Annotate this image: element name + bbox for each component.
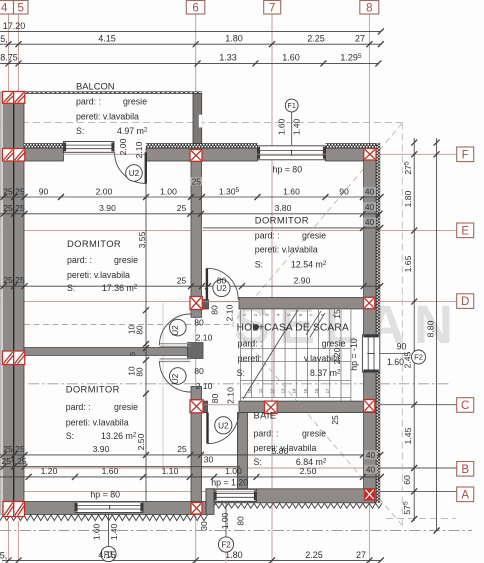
wall axis D jamb (202, 300, 209, 309)
door U2 dormitor2 swing arc (160, 361, 191, 392)
svg-text:40: 40 (365, 202, 375, 212)
staircase break line (306, 311, 321, 335)
svg-text:1.60: 1.60 (387, 357, 404, 367)
svg-text:27: 27 (355, 34, 365, 44)
svg-text:pard: :: pard: : (66, 402, 91, 412)
door U2 dormitor1 leaf (160, 343, 191, 345)
svg-text:S:: S: (66, 431, 74, 441)
grid axis A pink left part (0, 490, 378, 492)
column pair west axis F (3, 149, 25, 162)
svg-text:25,25: 25,25 (3, 203, 25, 213)
svg-text:DORMITOR: DORMITOR (67, 238, 121, 249)
door label U2 balcony (126, 165, 143, 182)
staircase walking line with start circle (253, 324, 259, 330)
door label U2 antreu (215, 417, 232, 434)
svg-text:D: D (461, 296, 469, 308)
svg-text:pard: :: pard: : (255, 231, 280, 241)
svg-text:11: 11 (258, 388, 263, 393)
roof ridge line (dashed) (24, 324, 232, 326)
svg-text:A: A (461, 489, 469, 501)
svg-text:U2: U2 (129, 169, 140, 178)
window label F1 south with leader (108, 514, 110, 546)
wall axis 6 stub above door (191, 310, 202, 318)
svg-text:C: C (461, 400, 469, 412)
insulation zigzag band south west (0, 515, 207, 521)
svg-text:U2: U2 (171, 325, 180, 336)
svg-text:E: E (461, 225, 469, 237)
svg-text:gresie: gresie (302, 429, 326, 439)
svg-text:17: 17 (325, 388, 330, 393)
wall west double wall (axes 4/5) (4, 92, 25, 515)
window F2 south (baie) (214, 489, 257, 501)
svg-text:2.10: 2.10 (226, 387, 236, 404)
axis D overlay over wall (202, 301, 376, 303)
centre axis line mid (dash-dot) (28, 383, 450, 385)
svg-text:pard: :: pard: : (254, 429, 279, 439)
insulation zigzag band south east (206, 503, 382, 508)
helper axis line x163 (162, 303, 164, 470)
svg-text:80: 80 (217, 275, 227, 285)
grid bubble axis 8 (360, 1, 379, 15)
wall south step (206, 489, 214, 515)
staircase treads (241, 308, 351, 401)
svg-text:1.40: 1.40 (109, 524, 119, 541)
svg-text:7: 7 (269, 2, 275, 14)
svg-text:S:: S: (255, 260, 263, 270)
balcony parapet opening (199, 115, 202, 128)
grid axis 5 bottom segment (18, 521, 20, 561)
grid axis C (horizontal) (376, 404, 457, 406)
svg-text:pereti:: pereti: (238, 354, 262, 364)
svg-text:1.00: 1.00 (160, 187, 177, 197)
svg-text:40: 40 (366, 450, 376, 460)
svg-text:pereti: v.lavabila: pereti: v.lavabila (66, 418, 129, 428)
axis C overlay over wall (189, 404, 380, 406)
column pair west interior wall (3, 351, 25, 365)
grid bubble axis D (457, 294, 474, 309)
svg-text:25: 25 (177, 203, 187, 213)
grid axis D (horizontal) (0, 301, 457, 303)
svg-text:1.60: 1.60 (283, 187, 300, 197)
svg-text:1.60: 1.60 (102, 466, 119, 476)
svg-text:2.90: 2.90 (294, 275, 311, 285)
svg-text:1.00: 1.00 (225, 466, 242, 476)
column axis8/D (364, 297, 375, 308)
svg-text:40: 40 (365, 217, 375, 227)
svg-text:1.33: 1.33 (219, 53, 237, 63)
svg-text:1.80: 1.80 (225, 34, 243, 44)
svg-text:17.36 m2: 17.36 m2 (102, 283, 138, 293)
door label U2 hall-dormitor (213, 279, 230, 296)
svg-text:U2: U2 (171, 373, 180, 384)
wall south east part (baie) (206, 489, 375, 503)
svg-text:gresie: gresie (114, 255, 138, 265)
svg-text:15: 15 (303, 388, 308, 393)
svg-text:1.60: 1.60 (282, 53, 300, 63)
door U2 hall-antreu leaf (206, 413, 208, 444)
svg-text:pereti: v.lavabila: pereti: v.lavabila (76, 112, 139, 122)
column axis8/C (364, 400, 375, 412)
wall thickness label 25 on axis6 (191, 177, 203, 186)
svg-text:1.80: 1.80 (403, 190, 413, 207)
axis F overlay over wall (24, 153, 376, 155)
svg-text:1.40: 1.40 (292, 119, 302, 136)
svg-text:25: 25 (177, 275, 187, 285)
grid bubble axis 6 (186, 1, 205, 15)
svg-text:90: 90 (339, 187, 349, 197)
svg-text:1.45: 1.45 (403, 427, 413, 444)
svg-text:U2: U2 (218, 421, 229, 430)
svg-text:HOL+CASA DE SCARA: HOL+CASA DE SCARA (237, 323, 349, 334)
svg-text:2.20: 2.20 (332, 347, 342, 364)
svg-text:25,25: 25,25 (3, 444, 25, 454)
svg-text:2.10: 2.10 (225, 304, 235, 321)
svg-text:16: 16 (314, 388, 319, 393)
wall baie west (237, 413, 247, 489)
dimension row (1.20/1.60/1.10/1.00/2.50/40) (0, 476, 381, 478)
grid axis E (horizontal) (0, 230, 457, 232)
svg-text:25,25: 25,25 (3, 275, 25, 285)
svg-text:F: F (462, 149, 469, 161)
grid axis F (horizontal) (378, 153, 457, 155)
grid bubble axis E (457, 223, 474, 238)
svg-text:40: 40 (365, 187, 375, 197)
column axis7/C (265, 401, 278, 414)
wall east (axis 8) lower (364, 372, 376, 503)
dimension row (25/25/3.90/25/3.80/40) (0, 213, 380, 215)
window F2 east stair window (362, 335, 379, 372)
door U2 dormitor1 swing arc (160, 314, 191, 345)
svg-text:1.60: 1.60 (92, 524, 102, 541)
door label U2 dormitor2 (170, 368, 187, 385)
wall balcony parapet east (193, 94, 202, 144)
svg-text:25,25: 25,25 (3, 187, 25, 197)
svg-text:13.26 m2: 13.26 m2 (101, 431, 137, 441)
svg-text:F2: F2 (221, 540, 231, 549)
grid axis B (horizontal) (378, 467, 457, 469)
wall F east segment (326, 148, 377, 161)
svg-text:S:: S: (67, 283, 75, 293)
svg-text:13: 13 (281, 388, 286, 393)
grid axis 4 bottom segment (8, 521, 10, 561)
svg-text:25: 25 (330, 415, 340, 425)
svg-text:8.75: 8.75 (0, 53, 18, 63)
wall interior between dormitors (24, 348, 188, 356)
svg-text:5,: 5, (0, 34, 8, 44)
dimension row (25/25/30) (0, 466, 240, 468)
svg-text:4.15: 4.15 (98, 34, 116, 44)
svg-text:pereti: v.lavabila: pereti: v.lavabila (254, 443, 317, 453)
svg-text:pereti: v.lavabila: pereti: v.lavabila (67, 270, 130, 280)
svg-text:1.20: 1.20 (41, 466, 58, 476)
svg-text:90: 90 (39, 187, 49, 197)
wall joint line west wall (13, 92, 15, 515)
svg-text:2.00: 2.00 (96, 187, 113, 197)
balcony parapet top (24, 91, 202, 94)
grid bubble axis B (457, 462, 474, 477)
svg-text:40: 40 (366, 464, 376, 474)
svg-text:80: 80 (210, 394, 220, 404)
door U2 dormitor2 leaf (160, 358, 191, 360)
svg-text:S:: S: (237, 368, 245, 378)
svg-text:pereti: v.lavabila: pereti: v.lavabila (255, 245, 318, 255)
svg-text:F1: F1 (288, 101, 296, 110)
svg-text:17.20: 17.20 (3, 21, 26, 31)
svg-text:27: 27 (356, 550, 366, 560)
svg-text:80: 80 (136, 367, 145, 377)
svg-text:B: B (461, 464, 469, 476)
svg-text:80: 80 (194, 318, 204, 328)
svg-text:pard: :: pard: : (238, 339, 263, 349)
column pair west balcony corner (3, 92, 25, 104)
grid bubble axis C (457, 398, 474, 413)
svg-text:gresie: gresie (123, 97, 147, 107)
svg-text:30: 30 (199, 521, 209, 531)
svg-text:60: 60 (402, 475, 412, 485)
door U2 balcony swing arc (115, 153, 146, 184)
grid bubble axis F (457, 147, 474, 162)
wall F mid segment (146, 148, 258, 161)
svg-text:BALCON: BALCON (76, 81, 115, 92)
grid bubble axis 5 (14, 1, 29, 15)
wall west exterior face line (1, 92, 4, 515)
roof eave outline right (dashed) (401, 123, 403, 527)
door U2 hall-dormitor leaf (206, 268, 208, 299)
svg-text:S:: S: (254, 457, 262, 467)
interior vertical dimension chain (3.55/10/80/10/80/2.50) (145, 162, 147, 502)
svg-text:80: 80 (194, 366, 204, 376)
dimension row (25/25/3.55col/25/80/2.90) (0, 285, 380, 287)
svg-text:80: 80 (136, 325, 145, 335)
svg-text:pard: :: pard: : (67, 255, 92, 265)
grid axis 4 (vertical) (8, 14, 10, 92)
door U2 balcony leaf (145, 152, 147, 183)
dimension row (25/25/90/2.00/1.00/1.30_5/1.60/90/40) (0, 196, 381, 198)
grid axis 6 (vertical) (195, 14, 197, 563)
dimension row 3 top (8.75 / 1.33 / 1.60 / 1.29_5) (0, 62, 378, 64)
right overall dimension line 8.80 (436, 138, 438, 531)
svg-text:25: 25 (192, 176, 202, 186)
svg-text:3.90: 3.90 (93, 444, 110, 454)
wall south west part (4, 502, 207, 515)
svg-text:hp = 80: hp = 80 (273, 165, 303, 175)
svg-text:2.00: 2.00 (118, 138, 128, 155)
svg-text:6.84 m2: 6.84 m2 (296, 457, 327, 467)
roof eave outline top (dashed) (0, 122, 402, 124)
svg-text:6: 6 (192, 2, 198, 14)
wall east (axis 8) upper (364, 148, 376, 335)
svg-text:2.50: 2.50 (136, 433, 146, 450)
window F1 south (dormitor 2) (75, 502, 143, 513)
wall hatch band F mid (146, 143, 258, 148)
svg-text:3.90: 3.90 (99, 203, 116, 213)
roof eave outline bottom (dashed) (386, 518, 456, 520)
svg-text:S:: S: (76, 126, 84, 136)
wall axis 6 lower (191, 413, 202, 503)
column axis6/D (190, 297, 202, 310)
grid axis 5 (vertical) (18, 14, 20, 92)
dimension row bottom (4.15/1.80/2.25/27) (2, 559, 381, 561)
window label F1 north with leader (291, 112, 293, 145)
roof hip diagonal SE (dashed) (232, 325, 402, 526)
svg-text:1.60: 1.60 (277, 119, 287, 136)
column axis8/F (364, 149, 376, 161)
grid axis 7 (vertical) (271, 14, 273, 563)
grid bubble axis 7 (264, 1, 281, 15)
svg-text:2.50: 2.50 (300, 466, 317, 476)
grid axis B pink left part (0, 467, 378, 469)
wall axis 6 door jamb block (188, 343, 204, 359)
column axis6/C (190, 400, 203, 413)
svg-text:3.55: 3.55 (137, 231, 147, 248)
grid bubble axis 4 (0, 1, 14, 15)
svg-text:BAIE: BAIE (254, 410, 277, 421)
right dimension line (27_5/1.80/1.65/2.45/1.45/60/57_5) (413, 138, 415, 521)
svg-text:2.25: 2.25 (307, 34, 325, 44)
svg-text:DORMITOR: DORMITOR (255, 215, 309, 226)
short dimension line at east wall (40) (203, 227, 380, 229)
window F1 hp=80 (north dormitor) (258, 146, 326, 160)
svg-text:25: 25 (177, 444, 187, 454)
svg-text:hp = -10: hp = -10 (349, 338, 359, 371)
svg-text:30: 30 (204, 455, 214, 465)
door U2 hall-dormitor swing arc (207, 268, 238, 299)
dimension row 1 top (17.20) (0, 30, 381, 32)
wall axis 6 upper (191, 161, 202, 297)
wall axis C (239, 401, 376, 413)
grid bubble axis A (457, 487, 474, 502)
grid axis A (horizontal) (378, 490, 457, 492)
wall F west segment (24, 148, 64, 161)
svg-text:5: 5 (128, 352, 137, 356)
svg-text:12.54 m2: 12.54 m2 (291, 260, 327, 270)
svg-text:2.10: 2.10 (196, 333, 213, 343)
svg-text:DORMITOR: DORMITOR (66, 384, 120, 395)
window label F1 south (101, 546, 116, 561)
svg-text:12: 12 (269, 388, 274, 393)
svg-text:hp = 1.20: hp = 1.20 (211, 478, 248, 488)
wall hatch band F west (24, 143, 64, 148)
svg-text:1.65: 1.65 (403, 255, 413, 272)
svg-text:1.00: 1.00 (220, 513, 230, 530)
svg-text:15: 15 (332, 309, 342, 319)
axis A overlay over wall (206, 490, 376, 492)
column axis8/A corner (solid) (364, 489, 374, 500)
svg-text:14: 14 (292, 388, 297, 393)
svg-text:5,: 5, (0, 551, 7, 561)
wall axis C jamb (203, 401, 208, 413)
window label F2 south (218, 537, 233, 552)
column pair west south corner (3, 502, 25, 517)
svg-text:90: 90 (397, 342, 407, 352)
svg-text:gresie: gresie (322, 339, 346, 349)
window label F2 south with leader (225, 503, 227, 537)
svg-text:gresie: gresie (114, 402, 138, 412)
svg-text:hp = 80: hp = 80 (90, 490, 120, 500)
svg-text:8.80: 8.80 (426, 320, 436, 337)
svg-text:pard: :: pard: : (76, 97, 101, 107)
svg-text:8.37 m2: 8.37 m2 (310, 368, 341, 378)
column axis6/south (191, 503, 202, 515)
column axis6/F (190, 150, 202, 162)
svg-text:251,25: 251,25 (1, 456, 26, 466)
svg-text:5: 5 (18, 2, 24, 14)
grid axis 8 (vertical) (368, 14, 370, 563)
svg-text:1.10: 1.10 (162, 466, 179, 476)
svg-text:2.10: 2.10 (134, 141, 144, 158)
roof hip diagonal NE (dashed) (232, 123, 402, 325)
axis E overlay over walls (191, 230, 202, 232)
window balcony-dormitor window (64, 142, 115, 153)
door U2 hall-antreu swing arc (208, 413, 239, 444)
svg-text:2.25: 2.25 (305, 550, 323, 560)
centre axis line bottom (dash-dot) (0, 530, 472, 532)
wall axis 6 stub below door (191, 387, 202, 400)
east window dims 90 / 1.60 (380, 353, 409, 355)
svg-text:gresie: gresie (302, 231, 326, 241)
svg-text:80: 80 (210, 305, 220, 315)
svg-text:80: 80 (236, 516, 246, 526)
dimension row 2 top (4.15 / 1.80 / 2.25 / 27) (0, 43, 381, 45)
wall thickness labels 40 (363, 187, 376, 196)
svg-text:10: 10 (247, 388, 252, 393)
dimension row (25/25/3.90/25/5.80/40) bottom (0, 454, 380, 456)
window label F1 north (285, 99, 298, 112)
svg-text:2.10: 2.10 (196, 381, 213, 391)
staircase tread numbers (242, 313, 336, 393)
svg-text:8: 8 (366, 2, 372, 14)
svg-text:3.80: 3.80 (275, 203, 292, 213)
door label U2 dormitor1 (170, 319, 187, 336)
svg-text:4.15: 4.15 (98, 550, 116, 560)
wall hatch band east lower (376, 372, 380, 503)
wall axis D hall-north (239, 298, 364, 309)
svg-text:4.97 m2: 4.97 m2 (117, 126, 148, 136)
wall hatch band F east (326, 143, 378, 148)
svg-text:4: 4 (1, 2, 8, 14)
svg-text:F2: F2 (414, 353, 423, 362)
window label F2 east (412, 350, 426, 364)
wall hatch band east upper (376, 143, 380, 335)
